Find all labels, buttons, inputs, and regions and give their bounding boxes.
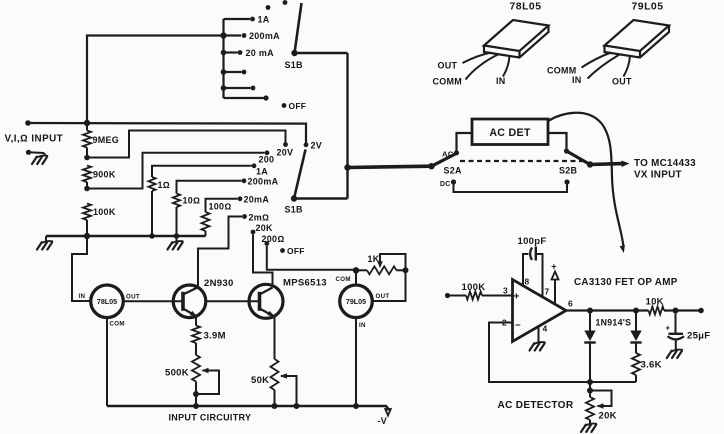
wire: 79L05 IN to rail bbox=[355, 318, 357, 406]
svg-text:OUT: OUT bbox=[612, 77, 632, 87]
wire: 20V tap bbox=[87, 131, 286, 158]
pin IN lead (78L05) bbox=[503, 56, 510, 77]
svg-text:IN: IN bbox=[572, 75, 582, 85]
svg-text:100pF: 100pF bbox=[518, 236, 547, 247]
svg-text:25μF: 25μF bbox=[687, 331, 710, 342]
wire: 200mA tap bbox=[177, 181, 242, 194]
resistor 100&#937; bbox=[202, 212, 210, 236]
svg-text:1A: 1A bbox=[256, 167, 268, 177]
label V,I,&#937; INPUT bbox=[5, 134, 64, 145]
node: pole bus / AC-DC feed junction bbox=[344, 164, 350, 170]
label OUT (78L05) bbox=[126, 294, 140, 301]
node: arc contact a bbox=[266, 5, 271, 10]
label 3.9M bbox=[204, 331, 226, 342]
svg-text:S1B: S1B bbox=[285, 60, 304, 70]
wire: dashed AC/DC link bbox=[460, 160, 584, 162]
label TO MC14433 bbox=[634, 158, 696, 169]
switch S1B lower wiper bbox=[291, 150, 306, 202]
svg-text:900K: 900K bbox=[93, 170, 116, 180]
pin IN lead (79L05) bbox=[588, 55, 620, 79]
wire: 2M&#937; tap to 2N930 collector bbox=[198, 217, 242, 288]
node: output/diode2 junction bbox=[633, 308, 639, 314]
op-amp - input mark bbox=[515, 320, 521, 331]
svg-text:3.6K: 3.6K bbox=[641, 360, 662, 371]
svg-text:100K: 100K bbox=[93, 207, 116, 217]
resistor 10K bbox=[649, 307, 699, 315]
node: bus/100K junction bbox=[84, 233, 90, 239]
svg-text:1A: 1A bbox=[258, 14, 270, 24]
node: 10K/25uF junction bbox=[673, 308, 679, 314]
wire: 1A contact stub bbox=[224, 18, 251, 20]
node: feed/bus junction bbox=[220, 32, 226, 38]
transistor Q1 2N930 bbox=[173, 285, 206, 318]
label MPS6513 bbox=[283, 278, 327, 289]
label 20V bbox=[277, 148, 294, 158]
node: S2A DC contact bbox=[451, 179, 456, 184]
svg-text:INPUT CIRCUITRY: INPUT CIRCUITRY bbox=[169, 413, 252, 423]
svg-text:OFF: OFF bbox=[287, 246, 305, 256]
svg-text:OUT: OUT bbox=[376, 293, 390, 300]
label IN (pkg 78L05) bbox=[496, 76, 506, 86]
svg-text:20K: 20K bbox=[599, 411, 617, 422]
node: 2M&#937; contact bbox=[242, 214, 247, 219]
resistor 9MEG bbox=[83, 123, 91, 158]
svg-text:4: 4 bbox=[543, 324, 548, 334]
node: 500K wiper/bottom junction bbox=[193, 391, 199, 397]
pin 4 label bbox=[543, 324, 548, 334]
label COMM (pkg 79L05) bbox=[547, 66, 577, 76]
wire: 200&#937; tap to COM node bbox=[267, 246, 353, 270]
node: 50K bottom/rail junction bbox=[272, 403, 278, 409]
label IN (pkg 79L05) bbox=[572, 75, 582, 85]
node: feedback/20K junction bbox=[587, 379, 593, 385]
wire: S1B upper pole line bbox=[295, 52, 348, 55]
svg-text:20V: 20V bbox=[277, 148, 294, 158]
label OUT (pkg 78L05) bbox=[438, 61, 458, 71]
svg-text:50K: 50K bbox=[251, 375, 269, 386]
node: 1K right junction bbox=[403, 267, 409, 273]
label 2N930 bbox=[204, 278, 234, 289]
label 100pF bbox=[518, 236, 547, 247]
svg-text:DC: DC bbox=[440, 181, 451, 188]
node: 200mA contact (lower) bbox=[242, 178, 247, 183]
svg-text:-V: -V bbox=[378, 416, 388, 426]
wire: feed from input up to current switch bus bbox=[87, 36, 241, 124]
svg-text:MPS6513: MPS6513 bbox=[283, 278, 327, 289]
regulator 79L05 bbox=[340, 285, 373, 318]
node: output terminal bbox=[698, 308, 704, 314]
svg-text:200: 200 bbox=[259, 155, 275, 165]
pin OUT lead (78L05) bbox=[463, 53, 492, 64]
svg-text:20K: 20K bbox=[256, 223, 274, 233]
svg-text:200Ω: 200Ω bbox=[262, 234, 285, 244]
label 200&#937; (range) bbox=[262, 234, 285, 244]
label COM (79L05) bbox=[336, 276, 351, 283]
svg-text:10Ω: 10Ω bbox=[183, 196, 201, 206]
ground: 25uF bbox=[667, 350, 683, 358]
pin COMM lead (79L05) bbox=[582, 53, 612, 68]
node: 50K wiper/rail junction bbox=[294, 403, 300, 409]
label OUT (pkg 79L05) bbox=[612, 77, 632, 87]
diode D1 1N914 bbox=[584, 311, 595, 383]
label S2A bbox=[444, 166, 463, 176]
svg-text:V,I,Ω INPUT: V,I,Ω INPUT bbox=[5, 134, 64, 145]
svg-text:100K: 100K bbox=[462, 282, 486, 293]
wire: output line bbox=[566, 309, 649, 311]
svg-text:–: – bbox=[515, 320, 521, 331]
label S1B (lower) bbox=[285, 205, 304, 215]
svg-text:100Ω: 100Ω bbox=[209, 202, 232, 212]
svg-text:20mA: 20mA bbox=[244, 194, 270, 204]
node: op-amp input terminal bbox=[445, 293, 450, 298]
label 78L05 (package) bbox=[510, 2, 542, 13]
resistor 3.9M bbox=[192, 317, 200, 356]
pin 2 label bbox=[502, 318, 507, 328]
node: 20mA contact bbox=[238, 50, 243, 55]
label 3.6K bbox=[641, 360, 662, 371]
label AC bbox=[442, 149, 454, 158]
label 25&#956;F bbox=[687, 331, 710, 342]
resistor 50K (pot) bbox=[271, 317, 279, 407]
wire: pin2 feedback loop bbox=[489, 323, 636, 383]
node: 200 contact bbox=[265, 150, 270, 155]
pin COMM lead (78L05) bbox=[466, 54, 500, 80]
node: 200mA contact bbox=[242, 33, 247, 38]
node: 900K/100K junction bbox=[84, 186, 90, 192]
label 100K (op-amp) bbox=[462, 282, 486, 293]
node: 200&#937; contact bbox=[264, 241, 269, 246]
switch S1B upper wiper bbox=[291, 3, 301, 56]
wire: 1K wiper loop bbox=[377, 254, 405, 268]
svg-text:78L05: 78L05 bbox=[97, 298, 117, 306]
node: unused contact 2 bbox=[251, 86, 256, 91]
label INPUT CIRCUITRY bbox=[169, 413, 252, 423]
svg-text:S2A: S2A bbox=[444, 166, 463, 176]
resistor 1&#937; bbox=[148, 177, 155, 236]
resistor 20K (pot) bbox=[586, 382, 594, 424]
svg-text:2mΩ: 2mΩ bbox=[249, 212, 270, 222]
wire: 50K wiper loop bbox=[280, 373, 297, 406]
pin 7 label bbox=[545, 287, 550, 297]
node: bus/10ohm junction bbox=[174, 233, 180, 239]
ground: bus center bbox=[168, 236, 184, 250]
wire: 200 tap bbox=[87, 153, 265, 189]
ground: 20K bottom bbox=[581, 424, 597, 432]
transistor Q2 MPS6513 bbox=[249, 284, 283, 318]
svg-text:2N930: 2N930 bbox=[204, 278, 234, 289]
label VX INPUT bbox=[634, 170, 682, 181]
wire: 20K tap to MPS6513 collector bbox=[253, 235, 273, 286]
switch S2B wiper bbox=[567, 151, 594, 168]
svg-text:79L05: 79L05 bbox=[632, 2, 664, 13]
svg-text:+: + bbox=[551, 262, 557, 272]
package 78L05 outline bbox=[484, 20, 549, 58]
label 1K bbox=[368, 254, 380, 264]
svg-text:S1B: S1B bbox=[285, 205, 304, 215]
svg-text:AC: AC bbox=[442, 149, 454, 158]
node: bus/1ohm junction bbox=[149, 233, 155, 239]
node: 500K/rail junction bbox=[193, 403, 199, 409]
label 9MEG bbox=[93, 135, 120, 145]
power -V bbox=[378, 409, 391, 426]
svg-text:78L05: 78L05 bbox=[510, 2, 542, 13]
node: 20V contact bbox=[283, 142, 288, 147]
label 500K bbox=[165, 368, 189, 379]
label OUT (79L05) bbox=[376, 293, 390, 300]
label IN (79L05) bbox=[359, 322, 366, 329]
label IN (78L05) bbox=[79, 293, 86, 300]
svg-text:1N914'S: 1N914'S bbox=[596, 318, 632, 328]
wire: pin8 to 100pF bbox=[523, 254, 529, 286]
svg-text:6: 6 bbox=[568, 299, 573, 309]
pin 6 label bbox=[568, 299, 573, 309]
label 200mA (top) bbox=[249, 31, 280, 41]
label S2B bbox=[559, 166, 578, 176]
node: V,I,&#937; input terminal bbox=[25, 120, 31, 126]
node: 79L05/rail junction bbox=[353, 403, 359, 409]
wire: COM to 79L05 bbox=[355, 270, 357, 285]
block AC DET bbox=[472, 119, 548, 145]
svg-text:+: + bbox=[666, 324, 671, 333]
wire: AC DET box to S2B AC contact bbox=[548, 133, 567, 149]
label 1N914'S bbox=[596, 318, 632, 328]
wire: 78L05 OUT to 2N930 base bbox=[123, 300, 183, 302]
node: 1A contact (lower) bbox=[252, 163, 257, 168]
wire: 20K wiper loop bbox=[590, 391, 612, 409]
wire: annotation curve to op amp bbox=[548, 113, 625, 253]
label CA3130 FET OP AMP bbox=[574, 277, 678, 288]
node: 1A contact bbox=[250, 17, 255, 22]
op-amp + input mark bbox=[514, 292, 520, 303]
svg-text:CA3130 FET OP AMP: CA3130 FET OP AMP bbox=[574, 277, 678, 288]
capacitor 100pF bbox=[530, 247, 536, 261]
node: 2V contact bbox=[304, 142, 309, 147]
node: 20mA contact (lower) bbox=[238, 196, 243, 201]
svg-text:COM: COM bbox=[110, 321, 125, 328]
wire: 20mA contact stub bbox=[221, 50, 238, 56]
ground: bus left end bbox=[37, 236, 53, 250]
label COM (78L05) bbox=[110, 321, 125, 328]
node: OFF contact (lower deck) bbox=[280, 248, 285, 253]
wire: 2N930 to MPS6513 base bbox=[206, 300, 260, 302]
resistor 500K (pot) bbox=[192, 355, 200, 406]
node: output/diode1 junction bbox=[587, 308, 593, 314]
label 20mA (lower) bbox=[244, 194, 270, 204]
label 79L05 (package) bbox=[632, 2, 664, 13]
svg-text:1Ω: 1Ω bbox=[158, 180, 170, 190]
wire: ground bus bbox=[46, 235, 206, 237]
svg-text:9MEG: 9MEG bbox=[93, 135, 120, 145]
label 20K (pot) bbox=[599, 411, 617, 422]
wire: unused contact stub 1 bbox=[221, 69, 242, 75]
svg-text:AC DET: AC DET bbox=[489, 127, 531, 139]
regulator 78L05 bbox=[91, 285, 124, 318]
node: input/divider junction bbox=[84, 120, 90, 126]
svg-text:VX INPUT: VX INPUT bbox=[634, 170, 682, 181]
label 100&#937; bbox=[209, 202, 232, 212]
label S1B (top) bbox=[285, 60, 304, 70]
wire: AC contact to AC DET box bbox=[457, 133, 473, 151]
node: unused contact 1 bbox=[242, 70, 247, 75]
svg-text:IN: IN bbox=[79, 293, 86, 300]
label 2m&#937; bbox=[249, 212, 270, 222]
label OFF (top) bbox=[289, 101, 307, 111]
pin OUT lead (79L05) bbox=[624, 56, 631, 77]
wire: -V rail bbox=[107, 406, 388, 411]
resistor 100K (op-amp input) bbox=[448, 292, 513, 300]
label OFF (lower) bbox=[287, 246, 305, 256]
power V+ arrow bbox=[551, 262, 558, 304]
resistor 100K (divider) bbox=[83, 204, 91, 237]
wire: main feed to S2A bbox=[348, 166, 432, 167]
svg-text:COMM: COMM bbox=[547, 66, 577, 76]
label 200mA (lower) bbox=[248, 176, 279, 186]
wire: 1A tap bbox=[152, 166, 252, 177]
wire: S1B lower pole line bbox=[294, 197, 348, 200]
wire: unused contact stub 2 bbox=[221, 85, 251, 91]
wire: output arrow to MC14433 bbox=[590, 161, 630, 168]
wire: 20mA tap bbox=[206, 199, 238, 212]
resistor 10&#937; bbox=[173, 194, 180, 237]
label 20K (range) bbox=[256, 223, 274, 233]
node: COM node (200&#937; line) bbox=[353, 267, 359, 273]
wire: 78L05 COM down to -V rail bbox=[106, 318, 108, 406]
capacitor 25uF bbox=[666, 311, 685, 351]
label 10&#937; bbox=[183, 196, 201, 206]
svg-text:+: + bbox=[514, 292, 520, 303]
svg-text:79L05: 79L05 bbox=[346, 298, 366, 306]
label 2V bbox=[311, 141, 323, 151]
ground: input common terminal bbox=[26, 150, 48, 164]
wire: pin4 to ground bbox=[538, 326, 540, 343]
label 100K (divider) bbox=[93, 207, 116, 217]
node: arc contact b bbox=[283, 0, 288, 5]
label DC bbox=[440, 181, 451, 188]
label AC DETECTOR bbox=[498, 400, 574, 411]
svg-text:TO MC14433: TO MC14433 bbox=[634, 158, 696, 169]
node: S2A AC contact bbox=[454, 150, 459, 155]
node: 20K contact bbox=[251, 230, 256, 235]
wire: 100pF to pin7 bbox=[536, 254, 543, 297]
wire: 1K to 79L05 OUT bbox=[373, 270, 406, 301]
svg-text:10K: 10K bbox=[646, 297, 664, 308]
svg-text:8: 8 bbox=[525, 277, 530, 287]
wire: bus to 78L05 IN bbox=[72, 236, 91, 301]
svg-text:20 mA: 20 mA bbox=[246, 48, 275, 58]
node: 9MEG/900K junction bbox=[84, 155, 90, 161]
svg-text:IN: IN bbox=[359, 322, 366, 329]
wire: S1B upper contact bus bbox=[222, 19, 224, 98]
svg-text:IN: IN bbox=[496, 76, 506, 86]
svg-text:200mA: 200mA bbox=[249, 31, 280, 41]
label 50K bbox=[251, 375, 269, 386]
ground: op-amp pin 4 bbox=[530, 342, 546, 350]
node: OFF contact (top deck) bbox=[282, 103, 287, 108]
svg-text:200mA: 200mA bbox=[248, 176, 279, 186]
wire: bottom contact stub bbox=[224, 97, 264, 99]
wire: 500K wiper loop bbox=[199, 368, 219, 394]
svg-text:3.9M: 3.9M bbox=[204, 331, 226, 342]
pin 8 label bbox=[525, 277, 530, 287]
label 1A (lower) bbox=[256, 167, 268, 177]
svg-text:OUT: OUT bbox=[438, 61, 458, 71]
label 1A (top) bbox=[258, 14, 270, 24]
svg-text:3: 3 bbox=[503, 286, 508, 296]
svg-text:S2B: S2B bbox=[559, 166, 578, 176]
label 200 bbox=[259, 155, 275, 165]
label 20mA (top) bbox=[246, 48, 275, 58]
label 900K bbox=[93, 170, 116, 180]
node: S2B AC contact bbox=[564, 148, 569, 153]
svg-text:COMM: COMM bbox=[433, 77, 463, 87]
wire: DC bypass path bbox=[454, 185, 568, 193]
resistor 3.6K bbox=[632, 353, 640, 382]
switch S2A wiper bbox=[428, 153, 456, 169]
svg-text:500K: 500K bbox=[165, 368, 189, 379]
op-amp U1 CA3130 triangle bbox=[513, 280, 567, 342]
svg-text:OFF: OFF bbox=[289, 101, 307, 111]
diode D2 1N914 bbox=[630, 311, 641, 354]
label 1&#937; bbox=[158, 180, 170, 190]
wire: pole bus vertical bbox=[346, 53, 348, 199]
resistor 900K bbox=[83, 166, 91, 189]
label 10K bbox=[646, 297, 664, 308]
svg-text:2V: 2V bbox=[311, 141, 323, 151]
node: S2B DC contact bbox=[564, 179, 569, 184]
node: bottom contact bbox=[263, 95, 268, 100]
resistor 1K bbox=[356, 266, 406, 274]
svg-text:AC DETECTOR: AC DETECTOR bbox=[498, 400, 574, 411]
svg-text:7: 7 bbox=[545, 287, 550, 297]
svg-text:COM: COM bbox=[336, 276, 351, 283]
package 79L05 outline bbox=[605, 20, 670, 58]
pin 3 label bbox=[503, 286, 508, 296]
wire: input line to 2V contact bbox=[28, 123, 306, 143]
label COMM (pkg 78L05) bbox=[433, 77, 463, 87]
svg-text:OUT: OUT bbox=[126, 294, 140, 301]
